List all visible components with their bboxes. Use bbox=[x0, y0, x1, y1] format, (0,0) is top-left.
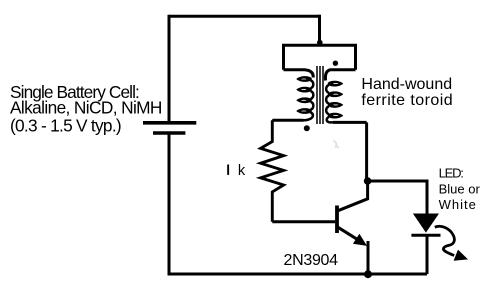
junction: emitter node on bottom rail bbox=[364, 270, 372, 278]
resistor R1 1k (zigzag) with leads bbox=[261, 120, 284, 222]
wire: secondary winding bottom to collector drop (horizontal) bbox=[333, 121, 367, 124]
svg-text:Blue or: Blue or bbox=[439, 181, 481, 196]
wire: bottom rail (ground return) bbox=[168, 273, 428, 276]
transformer T1 top yoke (center-tap box) bbox=[284, 45, 356, 69]
svg-text:Alkaline, NiCD, NiMH: Alkaline, NiCD, NiMH bbox=[10, 98, 162, 118]
wire: left vertical from battery - plate to bottom rail bbox=[168, 133, 171, 274]
wire: emitter to bottom rail bbox=[367, 241, 370, 274]
LED D1 light-emission squiggle arrow bbox=[435, 226, 455, 255]
wire: top rail from battery + to transformer tap bbox=[169, 15, 320, 18]
svg-text:LED:: LED: bbox=[439, 165, 464, 180]
svg-text:(0.3 - 1.5 V typ.): (0.3 - 1.5 V typ.) bbox=[10, 116, 121, 136]
transformer T1 secondary winding (right, 4 loops) bbox=[326, 81, 343, 123]
transistor Q1 emitter lead (diagonal) bbox=[338, 227, 362, 242]
transistor Q1 base bar bbox=[335, 206, 339, 234]
wire: LED cathode to bottom rail bbox=[426, 235, 429, 274]
battery B1 negative plate (short bar) bbox=[153, 131, 185, 135]
battery B1 positive plate (long bar) bbox=[143, 121, 196, 125]
transistor Q1 collector lead (diagonal + vertical) bbox=[338, 181, 368, 211]
svg-text:White: White bbox=[439, 197, 477, 212]
LED D1 anode triangle bbox=[413, 214, 439, 233]
wire: vertical drop from secondary to collector node bbox=[365, 122, 368, 181]
wire: left vertical from top rail to battery + plate bbox=[168, 15, 171, 121]
wire: resistor bottom to transistor base bbox=[272, 220, 335, 223]
transistor Q1 emitter arrowhead bbox=[353, 234, 367, 246]
svg-text:ferrite toroid: ferrite toroid bbox=[361, 92, 453, 109]
LED D1 squiggle arrowhead bbox=[454, 250, 468, 261]
polarity dot: secondary winding (top right) bbox=[333, 61, 338, 66]
svg-text:Hand-wound: Hand-wound bbox=[361, 76, 452, 93]
transformer T1 primary winding (left, 4 loops) bbox=[296, 76, 313, 120]
LED D1 cathode bar bbox=[411, 234, 440, 237]
wire: collector node to LED anode bbox=[368, 181, 427, 214]
wire: transformer top yoke bottom-left segment into primary winding bbox=[284, 70, 314, 78]
polarity dot: primary winding (bottom left) bbox=[304, 125, 310, 131]
wire: primary winding bottom to resistor top (horizontal) bbox=[272, 119, 303, 122]
svg-text:k: k bbox=[238, 163, 246, 179]
wire: tap drop from top rail to transformer center tap bbox=[318, 15, 321, 45]
value label: 1 k for resistor R1 bbox=[227, 163, 246, 179]
svg-text:2N3904: 2N3904 bbox=[284, 252, 339, 269]
junction: transformer center tap node bbox=[317, 40, 323, 46]
junction: collector node (to LED) bbox=[364, 177, 372, 185]
transformer T1 core (three vertical bars) bbox=[317, 66, 323, 124]
wire: transformer top yoke bottom-right segment into secondary winding bbox=[325, 70, 355, 81]
